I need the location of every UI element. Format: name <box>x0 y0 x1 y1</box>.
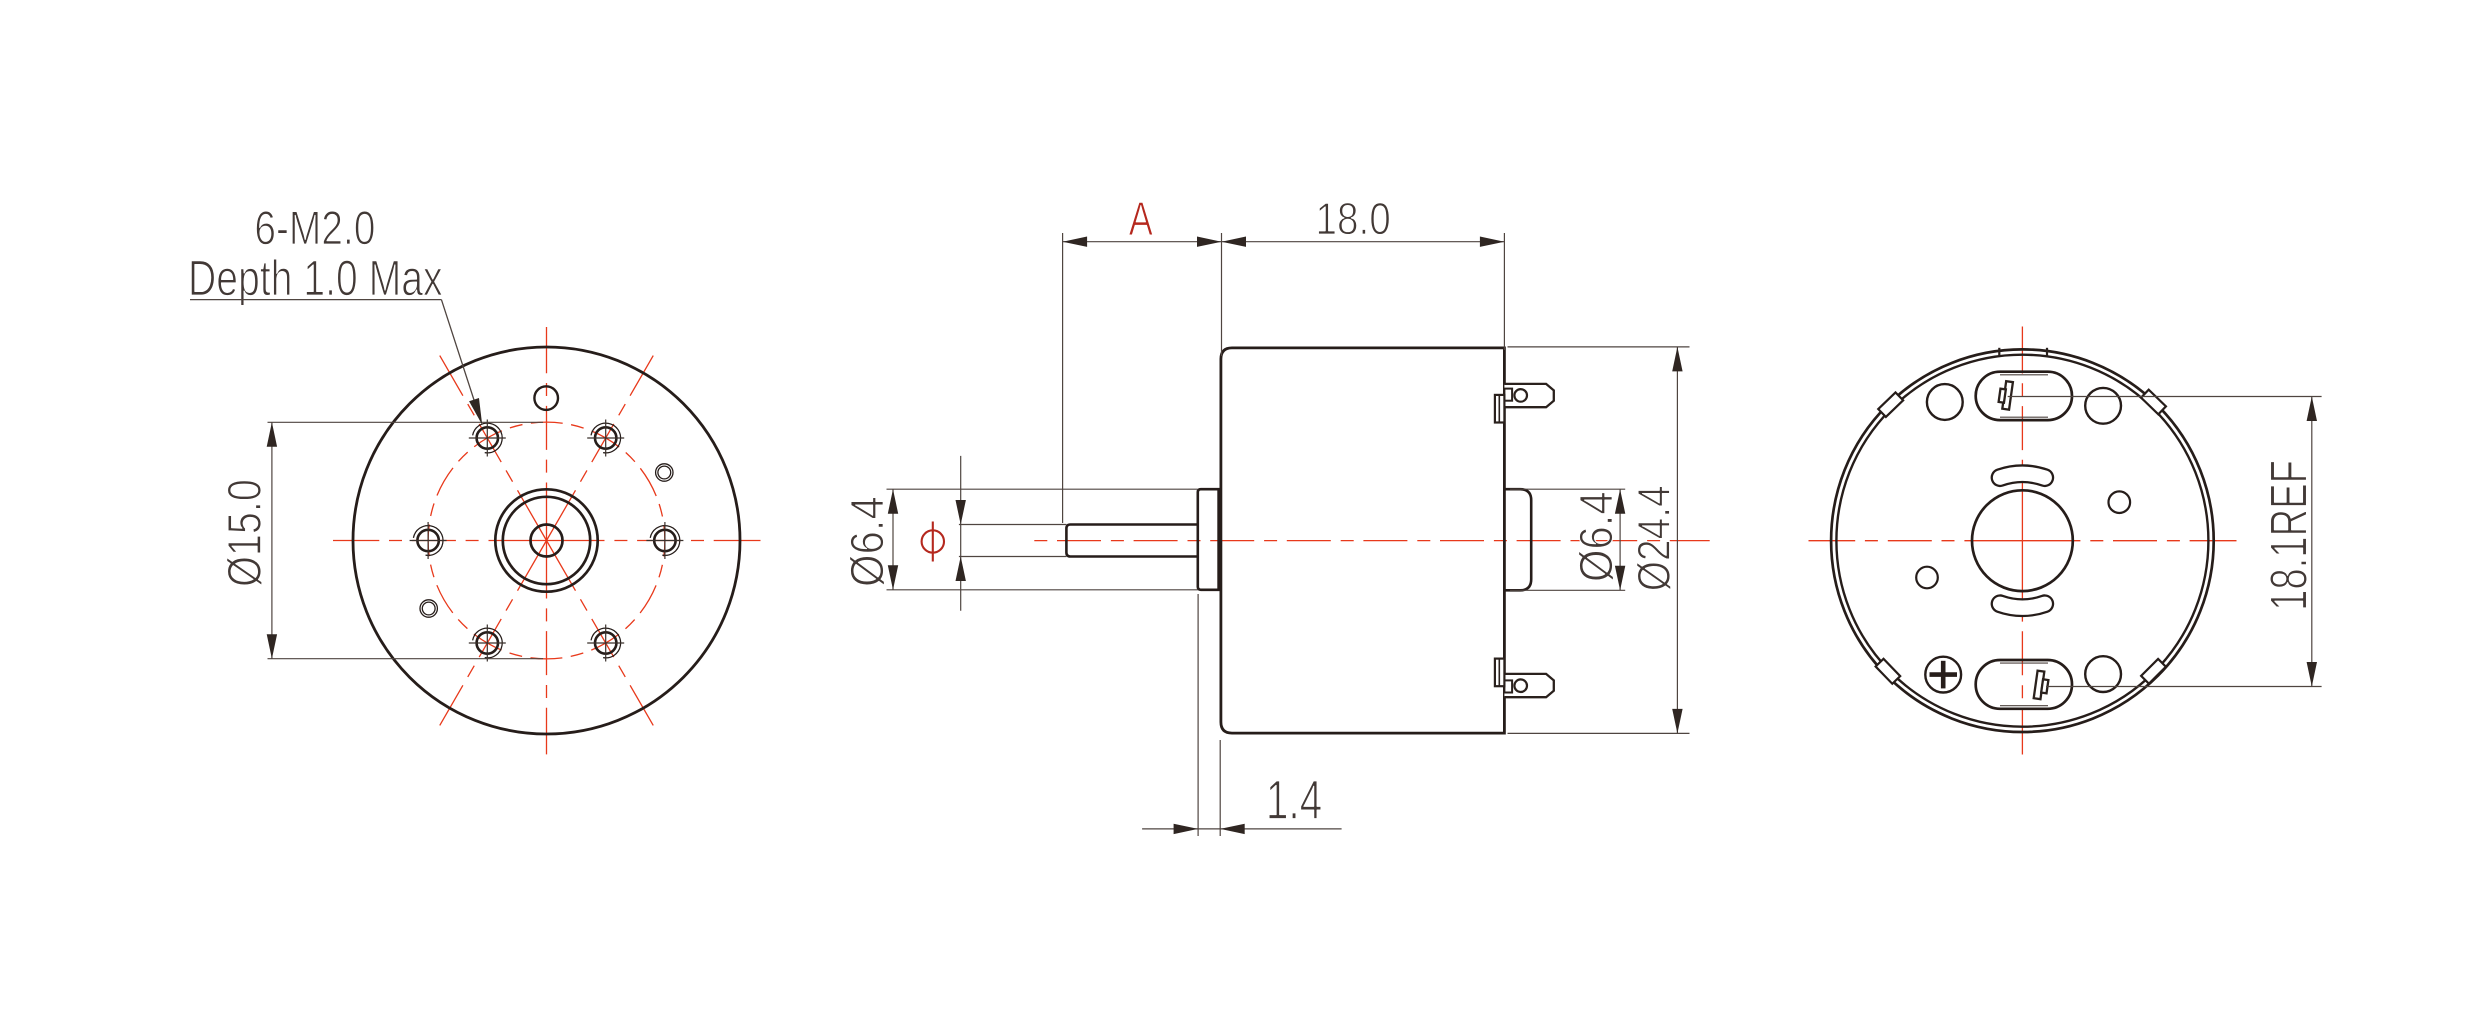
rear view: end cap outer circle <box>1831 349 2214 732</box>
side view: rear bearing boss Ø6.4 <box>1504 489 1531 590</box>
leader note: text Depth 1.0 Max <box>191 259 442 306</box>
side view: solder terminal (top) <box>1495 384 1554 423</box>
dimension Ø24.4: top extension line <box>1508 346 1690 348</box>
dimension 1.4: text <box>1269 781 1321 819</box>
rear view: end cap inner rolled-edge circle <box>1836 355 2208 727</box>
dimension 18.1REF: text <box>2270 462 2307 608</box>
rear view: rim seam tick (top left) <box>1998 348 2000 356</box>
dimension phi (shaft dia): dimension line <box>960 456 962 611</box>
front view: output shaft hole <box>531 525 563 557</box>
dimension 18.1REF: top extension line <box>2008 396 2322 398</box>
rear view: red vertical centerline <box>2021 327 2023 541</box>
dimension Ø6.4 (rear boss): bottom extension line <box>1510 589 1625 591</box>
front view: small through hole (top) <box>534 386 558 410</box>
front view: gearbox hub inner circle <box>503 497 590 584</box>
front view: motor body outer circle Ø24.4 <box>353 347 740 734</box>
dimension 18.1REF: dimension line <box>2311 397 2313 687</box>
side view: red horizontal centerline (shaft axis) <box>1031 540 1710 542</box>
front view: red horizontal centerline <box>333 540 547 542</box>
dimension A and 18.0: dimension line <box>1063 241 1505 243</box>
rear view: round hole (lower-right) <box>2085 656 2121 692</box>
rear view: round hole (lower-left) <box>1925 657 1961 693</box>
dimension Ø6.4 (front boss): top extension line <box>887 488 1198 490</box>
rear view: rim crimp notch (upper-right) <box>2141 390 2166 415</box>
front view: small double hole (upper right) <box>656 464 673 481</box>
dimension 18.0: extension line at body rear face <box>1503 233 1505 350</box>
side view: front bearing boss Ø6.4 <box>1198 489 1219 590</box>
dimension Ø6.4 (front boss): text <box>850 498 885 586</box>
rear view: rim seam tick (top right) <box>2046 348 2048 356</box>
dimension Ø6.4 (rear boss): top extension line <box>1510 488 1625 490</box>
dimension Ø6.4 (front boss): bottom extension line <box>887 589 1198 591</box>
rear view: round hole (upper-left) <box>1927 384 1963 420</box>
dimension Ø6.4 (rear boss): text <box>1579 493 1614 581</box>
front view: red 120deg diagonal centerline <box>440 356 547 541</box>
dimension phi: red phi symbol <box>922 530 944 552</box>
dimension Ø15.0: top extension line <box>268 421 544 423</box>
leader note: leader line to hole <box>441 300 480 420</box>
rear view: terminal cross-section (top slot) <box>1998 381 2013 410</box>
dimension 1.4: right extension line (body face) <box>1219 740 1221 836</box>
front view: gearbox hub outer circle <box>495 489 597 591</box>
dimension Ø6.4 (rear boss): dimension line <box>1619 489 1621 590</box>
front view: red 60deg diagonal centerline <box>547 356 654 541</box>
front view: small double hole (lower left) <box>420 600 437 617</box>
dimension A: extension line at shaft tip <box>1062 233 1064 523</box>
rear view: small hole (left) <box>1916 567 1938 589</box>
front view: M2.0 threaded mounting hole (left) <box>410 522 447 559</box>
leader note: text 6-M2.0 <box>256 211 374 245</box>
rear view: red horizontal centerline <box>1809 540 2023 542</box>
front view: M2.0 threaded mounting hole (upper-right) <box>587 420 624 457</box>
front view: M2.0 threaded mounting hole (lower-right) <box>587 625 624 662</box>
dimension 18.0: text <box>1318 203 1389 235</box>
dimension 1.4: dimension line <box>1142 828 1342 830</box>
dimension Ø6.4 (front boss): dimension line <box>892 489 894 590</box>
dimension 1.4: left extension line (boss face) <box>1197 594 1199 836</box>
dimension phi (shaft dia): bottom extension line <box>959 556 1067 558</box>
dimension Ø24.4: text <box>1637 487 1671 590</box>
dimension Ø15.0: text <box>227 481 262 586</box>
front view: red vertical centerline <box>546 327 548 541</box>
rear view: curved vent slot (top) <box>2000 474 2045 478</box>
dimension A/18.0: shared extension line at body front face <box>1221 233 1223 356</box>
rear view: curved vent slot (bottom) <box>2000 604 2045 608</box>
dimension Ø24.4: bottom extension line <box>1508 732 1690 734</box>
rear view: terminal cross-section (bottom slot) <box>2034 671 2050 700</box>
front view: M2.0 threaded mounting hole (upper-left) <box>469 420 506 457</box>
dimension Ø15.0: dimension line with arrows <box>271 422 273 658</box>
leader note: arrowhead <box>469 398 487 426</box>
dimension 18.1REF: bottom extension line <box>2046 686 2322 688</box>
side view: motor body outline <box>1221 348 1505 733</box>
dimension Ø24.4: dimension line <box>1676 347 1678 734</box>
front view: M2.0 threaded mounting hole (lower-left) <box>469 625 506 662</box>
rear view: plus polarity mark (lower-left hole) <box>1930 672 1958 677</box>
leader note: underline <box>190 299 441 301</box>
rear view: rim crimp notch (lower-right) <box>2141 659 2166 684</box>
front view: red bolt-circle centerline (Ø15 B.C.) <box>428 422 665 659</box>
rear view: brush window slot (bottom) <box>1976 660 2072 709</box>
dimension A: red text A <box>1129 202 1153 235</box>
side view: output shaft <box>1066 525 1197 557</box>
side view: solder terminal (bottom) <box>1495 659 1554 698</box>
rear view: center bearing boss circle <box>1972 490 2073 591</box>
rear view: round hole (upper-right) <box>2085 388 2121 424</box>
rear view: rim crimp notch (upper-left) <box>1878 392 1903 417</box>
dimension Ø15.0: bottom extension line <box>268 658 544 660</box>
rear view: rim crimp notch (lower-left) <box>1876 659 1901 684</box>
rear view: small hole (right) <box>2109 491 2131 513</box>
rear view: brush window slot (top) <box>1976 372 2072 420</box>
front view: M2.0 threaded mounting hole (right) <box>646 522 683 559</box>
dimension phi (shaft dia): top extension line <box>959 524 1067 526</box>
